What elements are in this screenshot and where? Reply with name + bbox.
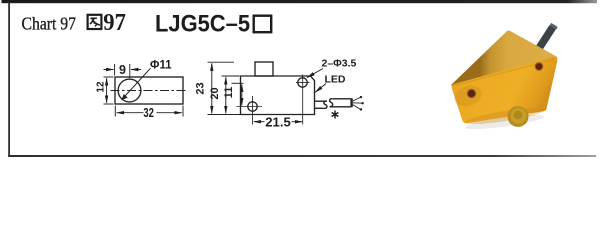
dimension 12: [104, 77, 114, 104]
photo hole right: [535, 62, 543, 70]
svg-text:2–Φ3.5: 2–Φ3.5: [322, 58, 357, 70]
photo ridge shading: [454, 60, 554, 86]
dimension 11: [232, 83, 244, 105]
svg-text:97: 97: [103, 10, 126, 36]
centerlines hole bottom-left: [237, 96, 263, 125]
svg-text:21.5: 21.5: [265, 115, 291, 129]
cable break squiggle left: [324, 101, 327, 108]
photo front face: [456, 61, 554, 120]
svg-text:20: 20: [209, 87, 221, 99]
view1 sensing circle: [118, 79, 141, 102]
photo top face: [454, 33, 555, 86]
svg-text:9: 9: [119, 63, 126, 77]
wire fan: [353, 96, 364, 111]
bottom page border: [8, 155, 596, 157]
cable segment 1: [315, 98, 352, 108]
dimension 23: [208, 62, 241, 114]
photo shadow: [465, 112, 545, 132]
dimension 21.5: [254, 121, 303, 123]
dimension 20: [222, 76, 240, 113]
centerlines hole top-right: [296, 75, 310, 125]
view2 hole top-right: [298, 78, 307, 87]
view2 hole bottom-left: [248, 102, 257, 111]
dimension 32: [115, 106, 183, 117]
cable break squiggle right: [330, 99, 333, 107]
top black bar: [2, 0, 598, 3]
svg-text:23: 23: [194, 82, 206, 94]
svg-text:12: 12: [96, 81, 107, 93]
left page border: [8, 2, 10, 157]
svg-text:LJG5C–5: LJG5C–5: [155, 11, 250, 38]
leader 2-Phi3.5: [307, 69, 323, 78]
view1 horizontal centerline: [111, 90, 188, 92]
dimension 9: [104, 64, 142, 78]
svg-text:Chart 97: Chart 97: [22, 13, 77, 33]
title open square: [254, 16, 272, 33]
svg-text:32: 32: [143, 106, 154, 120]
leader LED: [315, 84, 326, 93]
asterisk footnote: [332, 111, 339, 119]
view1 body outline: [115, 77, 183, 104]
svg-text:Φ11: Φ11: [150, 60, 172, 72]
title CJK glyph 图: [88, 15, 102, 29]
photo sensing cylinder: [508, 106, 529, 127]
cable segment 2: [330, 99, 352, 107]
svg-text:11: 11: [223, 87, 235, 99]
view2 body outline with chamfer: [241, 76, 315, 115]
view2 sensing head: [255, 62, 273, 76]
photo cable: [540, 27, 553, 48]
svg-text:LED: LED: [325, 73, 346, 85]
leader diameter line to Phi 11: [121, 68, 150, 100]
photo front face corner shading: [451, 82, 484, 110]
photo hole left: [467, 89, 476, 98]
